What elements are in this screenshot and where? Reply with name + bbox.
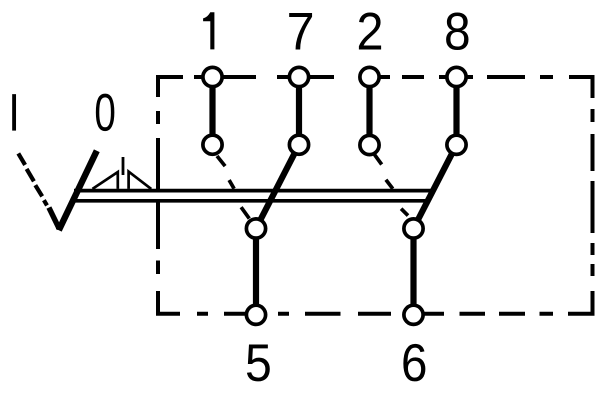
switch housing outline, bottom edge (dash-dot) [197, 312, 553, 316]
switch housing outline, left edge (dash-dot) [156, 111, 160, 274]
lever alternate position I (dashed) [18, 153, 47, 205]
switch housing outline, top-left corner [158, 77, 183, 97]
wire stem terminal 5 to its upper contact [253, 229, 259, 316]
wire stem terminal 7 to its lower contact [296, 77, 302, 145]
lever (solid, position 0) [59, 151, 97, 230]
switch housing outline, top edge (dash-dot) [156, 75, 553, 79]
detent symbol tick [122, 157, 125, 175]
terminal 8 circle [447, 67, 466, 86]
contact circle below terminal 1 [203, 135, 222, 154]
open contact position 1-5 (dashed diagonal) [217, 156, 249, 219]
switch housing outline, top-right corner [569, 77, 593, 98]
terminal 2 circle [360, 67, 379, 86]
open contact position 2-6 (dashed diagonal) [374, 154, 408, 215]
label terminal 2 [359, 12, 381, 49]
contact circle below terminal 8 [447, 135, 466, 154]
lever tip solid segment [49, 208, 59, 229]
wire stem terminal 6 to its upper contact [410, 229, 416, 316]
actuator bar upper line [74, 189, 432, 193]
wire stem terminal 1 to its lower contact [209, 77, 215, 145]
terminal 5 circle [246, 305, 265, 324]
label position I [12, 94, 16, 130]
detent symbol right triangle [129, 172, 152, 189]
contact circle above terminal 5 [246, 219, 265, 238]
terminal 6 circle [404, 305, 423, 324]
actuator bar lower line [71, 199, 428, 203]
contact circle below terminal 2 [360, 135, 379, 154]
detent symbol left triangle [93, 172, 118, 189]
label terminal 1 [203, 12, 214, 49]
switch housing outline, bottom-left corner [158, 291, 180, 314]
label position 0 [96, 94, 115, 132]
label terminal 5 [247, 344, 270, 381]
closed contact bridge 7-5 (thick diagonal) [256, 145, 299, 229]
closed contact bridge 8-6 (thick diagonal) [414, 145, 457, 229]
wire stem terminal 2 to its lower contact [366, 77, 372, 145]
label terminal 7 [289, 13, 312, 49]
contact circle above terminal 6 [404, 219, 423, 238]
terminal 7 circle [289, 67, 308, 86]
label terminal 6 [403, 344, 425, 382]
contact circle below terminal 7 [289, 135, 308, 154]
switch housing outline, right edge (dash-dot) [591, 109, 595, 276]
terminal 1 circle [203, 67, 222, 86]
switch housing outline, bottom-right corner [568, 291, 593, 314]
label terminal 8 [446, 12, 468, 50]
wire stem terminal 8 to its lower contact [453, 77, 459, 145]
